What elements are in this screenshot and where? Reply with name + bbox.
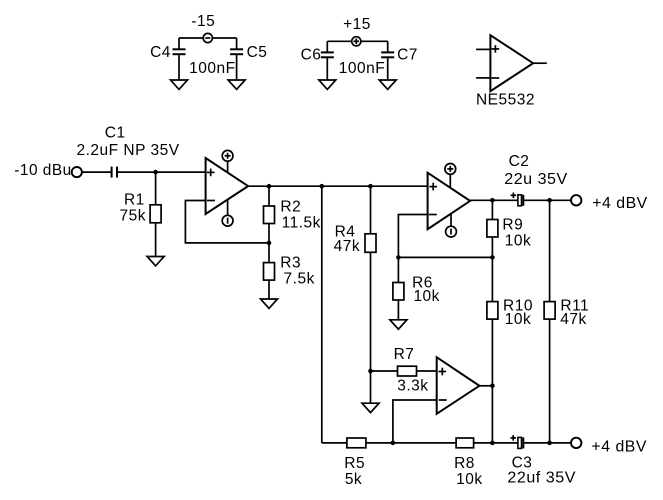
svg-text:R2: R2 — [280, 198, 301, 215]
svg-text:+15: +15 — [343, 16, 371, 33]
svg-text:3.3k: 3.3k — [397, 378, 428, 395]
svg-text:2.2uF NP 35V: 2.2uF NP 35V — [76, 142, 179, 159]
svg-text:10k: 10k — [456, 471, 483, 488]
svg-text:7.5k: 7.5k — [284, 270, 315, 287]
svg-text:+4 dBV: +4 dBV — [591, 438, 647, 455]
svg-text:R9: R9 — [502, 217, 523, 234]
svg-text:-10 dBu: -10 dBu — [14, 162, 72, 179]
svg-text:100nF: 100nF — [339, 60, 385, 77]
svg-text:75k: 75k — [120, 208, 147, 225]
svg-text:47k: 47k — [560, 311, 587, 328]
svg-text:-15: -15 — [191, 13, 215, 30]
svg-text:C4: C4 — [150, 44, 171, 61]
svg-text:C6: C6 — [301, 47, 322, 64]
svg-text:R7: R7 — [394, 346, 415, 363]
svg-text:R3: R3 — [280, 254, 301, 271]
svg-text:+4 dBV: +4 dBV — [592, 195, 648, 212]
svg-text:C7: C7 — [397, 47, 418, 64]
svg-text:R1: R1 — [124, 192, 145, 209]
svg-text:5k: 5k — [345, 471, 362, 488]
svg-text:C5: C5 — [247, 44, 268, 61]
svg-text:22u 35V: 22u 35V — [504, 171, 568, 188]
svg-text:10k: 10k — [413, 288, 440, 305]
svg-text:C2: C2 — [509, 153, 530, 170]
svg-text:C1: C1 — [105, 125, 126, 142]
svg-text:R8: R8 — [454, 455, 475, 472]
svg-text:NE5532: NE5532 — [476, 92, 535, 109]
svg-text:47k: 47k — [334, 238, 361, 255]
svg-text:R5: R5 — [344, 455, 365, 472]
svg-text:22uf 35V: 22uf 35V — [507, 470, 576, 487]
svg-text:100nF: 100nF — [189, 60, 235, 77]
svg-text:10k: 10k — [505, 311, 532, 328]
svg-text:11.5k: 11.5k — [282, 214, 321, 231]
svg-text:10k: 10k — [505, 232, 532, 249]
